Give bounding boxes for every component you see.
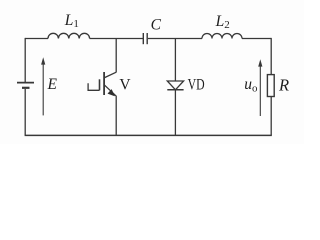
arrow u_o (output voltage) [258,59,262,116]
wire IGBT emitter to bottom wire [115,96,117,136]
capacitor C [143,33,147,44]
wire bottom [25,134,272,136]
wire IGBT collector branch from top wire [115,39,117,73]
wire right vertical top (corner to resistor) [270,38,272,75]
wire top-left segment [25,38,48,40]
inductor L2 [202,34,242,39]
svg-text:E: E [47,76,58,93]
wire C to L2 [148,38,202,40]
battery E plates [17,83,34,88]
transistor V (IGBT) [88,72,116,96]
wire diode to bottom wire [174,90,176,136]
resistor R body [267,75,274,97]
svg-text:C: C [151,17,162,34]
diode VD [167,81,183,90]
inductor L1 [48,33,90,38]
arrow E (emf direction) [41,57,45,115]
wire L2 to top-right corner [242,38,271,40]
wire left vertical bottom (battery to bottom wire) [24,89,26,135]
svg-text:V: V [119,77,131,94]
svg-text:R: R [278,75,289,94]
wire L1 to capacitor C [90,38,143,40]
svg-text:VD: VD [188,77,205,94]
wire left vertical top (corner to battery) [24,38,26,82]
wire right vertical bottom (resistor to bottom wire) [270,97,272,136]
wire diode branch from top wire [174,39,176,82]
